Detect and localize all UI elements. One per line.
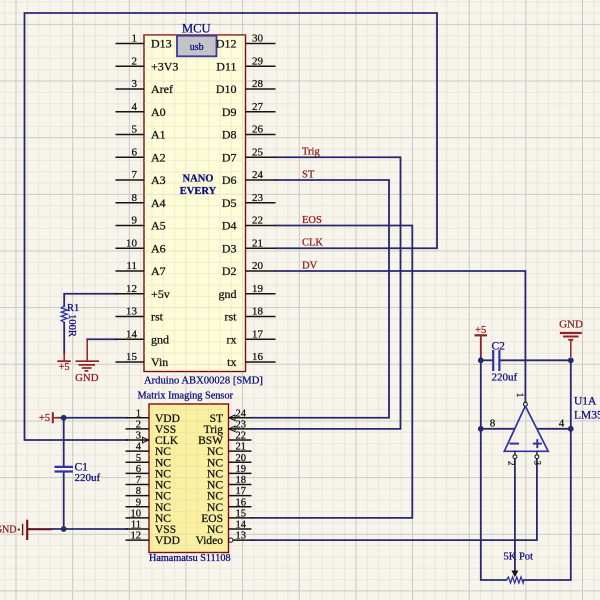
svg-text:16: 16 [252, 351, 264, 363]
MCU pin 18 rst [225, 306, 276, 324]
svg-text:11: 11 [126, 260, 137, 272]
svg-text:LM358: LM358 [574, 410, 600, 422]
svg-text:1: 1 [515, 393, 525, 398]
MCU pin 23 D5 [222, 192, 276, 210]
svg-text:25: 25 [252, 146, 264, 158]
+5 power port at sensor VDD pin 1 [39, 412, 60, 424]
svg-text:U1A: U1A [574, 396, 597, 408]
svg-text:A1: A1 [151, 128, 166, 142]
wire op-amp pin 8 supply wire [481, 428, 514, 430]
MCU pin 5 A1 [116, 124, 166, 142]
svg-text:6: 6 [132, 146, 138, 158]
sensor pin 10 NC [126, 508, 172, 525]
svg-text:CLK: CLK [302, 238, 323, 249]
svg-text:R1: R1 [67, 303, 79, 314]
sensor pin 20 NC [207, 453, 251, 470]
wire net Trig from MCU D7 pin 25 to sensor Trig pin 23 [252, 157, 401, 429]
capacitor C1 220uf [55, 462, 101, 485]
sensor pin 6 NC [126, 464, 172, 481]
op-amp U1A pin 2 inverting input [507, 451, 517, 465]
svg-text:Matrix Imaging Sensor: Matrix Imaging Sensor [138, 391, 234, 402]
svg-text:D6: D6 [222, 173, 237, 187]
resistor R1 100R [61, 303, 79, 337]
MCU pin 19 gnd [219, 283, 276, 301]
svg-text:9: 9 [132, 215, 138, 227]
svg-text:NANO: NANO [183, 174, 214, 185]
svg-text:DV: DV [302, 261, 318, 272]
sensor pin 11 VSS [126, 520, 177, 537]
svg-text:D3: D3 [222, 241, 237, 255]
svg-text:220uf: 220uf [492, 372, 518, 384]
op-amp U1A designator and part name [574, 396, 600, 422]
svg-text:+5: +5 [475, 325, 486, 336]
svg-text:29: 29 [252, 55, 264, 67]
svg-text:usb: usb [190, 42, 204, 53]
svg-text:D9: D9 [222, 105, 237, 119]
+5 power port above capacitor C2 [475, 325, 488, 356]
svg-text:4: 4 [136, 442, 142, 453]
svg-text:+3V3: +3V3 [151, 59, 178, 73]
svg-text:D4: D4 [222, 219, 237, 233]
MCU usb connector box [177, 36, 217, 57]
svg-text:GND: GND [0, 525, 17, 536]
potentiometer wiper arrow [511, 571, 518, 578]
svg-text:2: 2 [507, 461, 517, 466]
svg-text:1: 1 [136, 408, 141, 419]
svg-text:A0: A0 [151, 105, 166, 119]
MCU designator label [182, 22, 210, 36]
svg-text:24: 24 [252, 169, 264, 181]
svg-text:rx: rx [227, 332, 237, 346]
sensor pin 9 NC [126, 497, 172, 514]
junction [568, 426, 574, 432]
svg-text:30: 30 [252, 33, 264, 45]
svg-text:+5: +5 [59, 362, 70, 373]
svg-text:D2: D2 [222, 264, 237, 278]
net label Trig [302, 147, 320, 158]
op-amp U1A pin 3 non-inverting input [532, 451, 542, 465]
svg-text:21: 21 [252, 237, 263, 249]
svg-text:15: 15 [236, 508, 247, 519]
svg-text:5K Pot: 5K Pot [504, 552, 534, 563]
wire from +5 rail to capacitor C2 left plate [481, 359, 493, 361]
svg-text:gnd: gnd [151, 332, 169, 346]
junction [478, 426, 484, 432]
net label EOS [302, 215, 322, 226]
wire from op-amp inverting input pin 2 to pot wiper [514, 458, 516, 572]
MCU pin 21 D3 [222, 237, 276, 255]
junction [478, 357, 484, 363]
svg-text:8: 8 [132, 192, 138, 204]
MCU pin 16 tx [227, 351, 275, 369]
sensor ST pin 24 input arrow [229, 415, 235, 421]
wire from MCU gnd pin 14 to GND power port [87, 338, 116, 340]
svg-text:A5: A5 [151, 219, 166, 233]
MCU pin 28 D10 [216, 78, 276, 96]
svg-text:D12: D12 [216, 37, 237, 51]
MCU pin 29 D11 [216, 55, 275, 73]
net label CLK [302, 238, 323, 249]
svg-text:28: 28 [252, 78, 264, 90]
svg-text:13: 13 [236, 531, 247, 542]
sensor pin 16 NC [207, 497, 251, 514]
+5 power port below R1 [57, 353, 70, 373]
MCU pin 10 A6 [116, 237, 166, 255]
svg-text:EVERY: EVERY [180, 186, 217, 197]
MCU pin 24 D6 [222, 169, 276, 187]
MCU pin 12 +5v [116, 283, 170, 301]
MCU pin 9 A5 [116, 215, 166, 233]
MCU pin 3 Aref [116, 78, 173, 96]
svg-text:24: 24 [236, 408, 247, 419]
svg-text:D7: D7 [222, 150, 237, 164]
sensor pin 22 BSW [198, 431, 251, 448]
wire op-amp pin 4 supply wire [538, 428, 571, 430]
svg-text:2: 2 [132, 55, 138, 67]
sensor Trig pin 23 input arrow [229, 426, 235, 432]
sensor pin 17 NC [207, 486, 251, 503]
svg-text:4: 4 [559, 418, 565, 430]
op-amp U1A LM358 triangle [504, 406, 548, 451]
wire ground rail from GND power port to sensor VSS pin 11 [29, 528, 128, 530]
ground GND above op-amp V- rail [559, 319, 583, 358]
svg-text:EOS: EOS [302, 215, 322, 226]
MCU pin 25 D7 [222, 146, 276, 164]
svg-text:A7: A7 [151, 264, 166, 278]
sensor pin 18 NC [207, 475, 251, 492]
svg-text:15: 15 [126, 351, 138, 363]
svg-text:26: 26 [252, 124, 264, 136]
wire from +5 rail down to capacitor C1 [63, 418, 65, 466]
svg-text:20: 20 [236, 453, 247, 464]
svg-text:rst: rst [225, 310, 238, 324]
svg-text:4: 4 [132, 101, 138, 113]
svg-text:D5: D5 [222, 196, 237, 210]
svg-text:5: 5 [136, 453, 141, 464]
svg-text:8: 8 [136, 486, 141, 497]
wire net CLK from MCU D3 pin 21 to sensor CLK pin 3 [25, 13, 438, 440]
MCU pin 15 Vin [116, 351, 169, 369]
MCU pin 4 A0 [116, 101, 166, 119]
svg-text:C2: C2 [492, 340, 506, 352]
sensor pin 19 NC [207, 464, 251, 481]
svg-text:A3: A3 [151, 173, 166, 187]
op-amp U1A pin 8 V+ [490, 418, 496, 430]
sensor pin 4 NC [126, 442, 172, 459]
MCU pin 6 A2 [116, 146, 166, 164]
svg-text:5: 5 [132, 124, 138, 136]
svg-text:gnd: gnd [219, 287, 237, 301]
MCU part name Arduino ABX00028 [SMD] [144, 376, 263, 387]
svg-text:18: 18 [236, 475, 247, 486]
svg-text:Aref: Aref [151, 82, 173, 96]
svg-text:D8: D8 [222, 128, 237, 142]
sensor pin 24 ST [210, 408, 252, 425]
svg-text:ST: ST [302, 170, 315, 181]
svg-text:A6: A6 [151, 241, 166, 255]
MCU pin 13 rst [116, 306, 164, 324]
svg-text:Trig: Trig [302, 147, 320, 158]
sensor CLK pin 3 input arrow [143, 437, 149, 443]
svg-text:1: 1 [132, 33, 138, 45]
MCU pin 26 D8 [222, 124, 276, 142]
svg-text:22: 22 [252, 215, 263, 227]
wire net DV from MCU D2 pin 20 to op-amp output pin 1 [276, 271, 526, 402]
svg-text:19: 19 [236, 464, 247, 475]
capacitor C2 220uf [492, 340, 518, 383]
MCU pin 8 A4 [116, 192, 166, 210]
wire net +5 to sensor VDD pin 1 [57, 417, 128, 419]
svg-text:27: 27 [252, 101, 264, 113]
svg-text:100R: 100R [66, 314, 77, 337]
sensor pin 8 NC [126, 486, 172, 503]
wire net EOS from MCU D4 pin 22 to sensor EOS pin 15 [252, 226, 413, 518]
ground GND below MCU gnd pin 14 [75, 339, 99, 384]
op-amp U1A pin 4 V- [559, 418, 565, 430]
svg-text:VDD: VDD [155, 535, 180, 547]
sensor comment Matrix Imaging Sensor [138, 391, 234, 402]
svg-text:18: 18 [252, 306, 264, 318]
MCU pin 7 A3 [116, 169, 166, 187]
svg-text:6: 6 [136, 464, 141, 475]
svg-text:A4: A4 [151, 196, 166, 210]
svg-text:11: 11 [131, 520, 141, 531]
svg-text:A2: A2 [151, 150, 166, 164]
svg-text:Vin: Vin [151, 355, 168, 369]
wire from capacitor C1 down to ground rail [63, 472, 65, 529]
wire from op-amp pin 4 rail down to pot right terminal [524, 429, 571, 580]
svg-text:10: 10 [131, 508, 142, 519]
svg-text:+5: +5 [39, 413, 50, 424]
junction [568, 357, 574, 363]
svg-text:17: 17 [236, 486, 247, 497]
sensor pin 13 Video [196, 531, 252, 548]
MCU pin 2 +3V3 [116, 55, 179, 73]
svg-text:Video: Video [196, 535, 224, 547]
svg-text:7: 7 [132, 169, 138, 181]
wire net ST from MCU D6 pin 24 to sensor ST pin 24 [252, 180, 390, 418]
svg-text:8: 8 [490, 418, 496, 430]
svg-text:7: 7 [136, 475, 141, 486]
sensor Video pin 13 output dot [229, 538, 233, 542]
ground GND power port at sensor VSS rail [0, 520, 52, 540]
op-amp U1A pin 1 output [515, 393, 527, 406]
sensor pin 7 NC [126, 475, 172, 492]
svg-text:+5v: +5v [151, 287, 170, 301]
sensor pin 2 VSS [126, 419, 177, 436]
junction [61, 415, 67, 421]
sensor pin 5 NC [126, 453, 172, 470]
svg-text:20: 20 [252, 260, 264, 272]
svg-text:220uf: 220uf [75, 472, 101, 484]
wire vertical GND rail to op-amp pin 4 [570, 360, 572, 429]
wire from capacitor C2 right plate to GND rail [500, 359, 571, 361]
MCU pin 30 D12 [216, 33, 276, 51]
wire from MCU +5v pin 12 to resistor R1 [64, 294, 116, 306]
MCU pin 14 gnd [116, 328, 170, 346]
svg-text:3: 3 [132, 78, 138, 90]
MCU pin 22 D4 [222, 215, 276, 233]
svg-text:23: 23 [236, 419, 247, 430]
svg-text:2: 2 [136, 419, 141, 430]
wire net Video from sensor pin 13 to op-amp non-inverting input pin 3 [252, 458, 537, 540]
MCU pin 20 D2 [222, 260, 276, 278]
net label ST [302, 170, 315, 181]
svg-text:19: 19 [252, 283, 264, 295]
junction [61, 526, 67, 532]
wire vertical +5 rail through C2 to op-amp pin 8 [480, 336, 482, 429]
sensor pin 1 VDD [126, 408, 180, 425]
svg-text:17: 17 [252, 328, 264, 340]
sensor pin 14 NC [207, 520, 251, 537]
sensor pin 23 Trig [204, 419, 252, 436]
net label DV [302, 261, 318, 272]
sensor pin 3 CLK [126, 431, 179, 448]
svg-text:9: 9 [136, 497, 141, 508]
svg-text:MCU: MCU [182, 22, 210, 36]
svg-text:22: 22 [236, 431, 247, 442]
MCU pin 17 rx [227, 328, 276, 346]
MCU comment NANO EVERY [180, 174, 217, 198]
svg-text:3: 3 [532, 461, 542, 466]
svg-text:14: 14 [126, 328, 138, 340]
svg-text:GND: GND [75, 372, 99, 384]
svg-text:rst: rst [151, 310, 164, 324]
svg-text:D10: D10 [216, 82, 237, 96]
svg-text:12: 12 [131, 531, 142, 542]
svg-text:23: 23 [252, 192, 264, 204]
svg-text:14: 14 [236, 520, 247, 531]
svg-text:12: 12 [126, 283, 137, 295]
MCU pin 27 D9 [222, 101, 276, 119]
svg-text:13: 13 [126, 306, 138, 318]
MCU pin 11 A7 [116, 260, 166, 278]
svg-text:16: 16 [236, 497, 247, 508]
svg-text:D13: D13 [151, 37, 172, 51]
wire from op-amp pin 8 rail down to pot left terminal [481, 429, 507, 580]
sensor pin 15 EOS [201, 508, 251, 525]
potentiometer 5K Pot [504, 552, 534, 584]
svg-text:D11: D11 [216, 59, 236, 73]
svg-text:GND: GND [559, 319, 583, 331]
svg-text:tx: tx [227, 355, 236, 369]
svg-text:3: 3 [136, 431, 141, 442]
svg-text:21: 21 [236, 442, 247, 453]
svg-text:10: 10 [126, 237, 138, 249]
svg-text:Hamamatsu S11108: Hamamatsu S11108 [149, 553, 231, 564]
svg-text:Arduino ABX00028 [SMD]: Arduino ABX00028 [SMD] [144, 376, 263, 387]
MCU pin 1 D13 [116, 33, 172, 51]
sensor pin 21 NC [207, 442, 251, 459]
sensor pin 12 VDD [126, 531, 180, 548]
sensor part name Hamamatsu S11108 [149, 553, 231, 564]
wire from resistor R1 to +5 power port [63, 323, 65, 354]
